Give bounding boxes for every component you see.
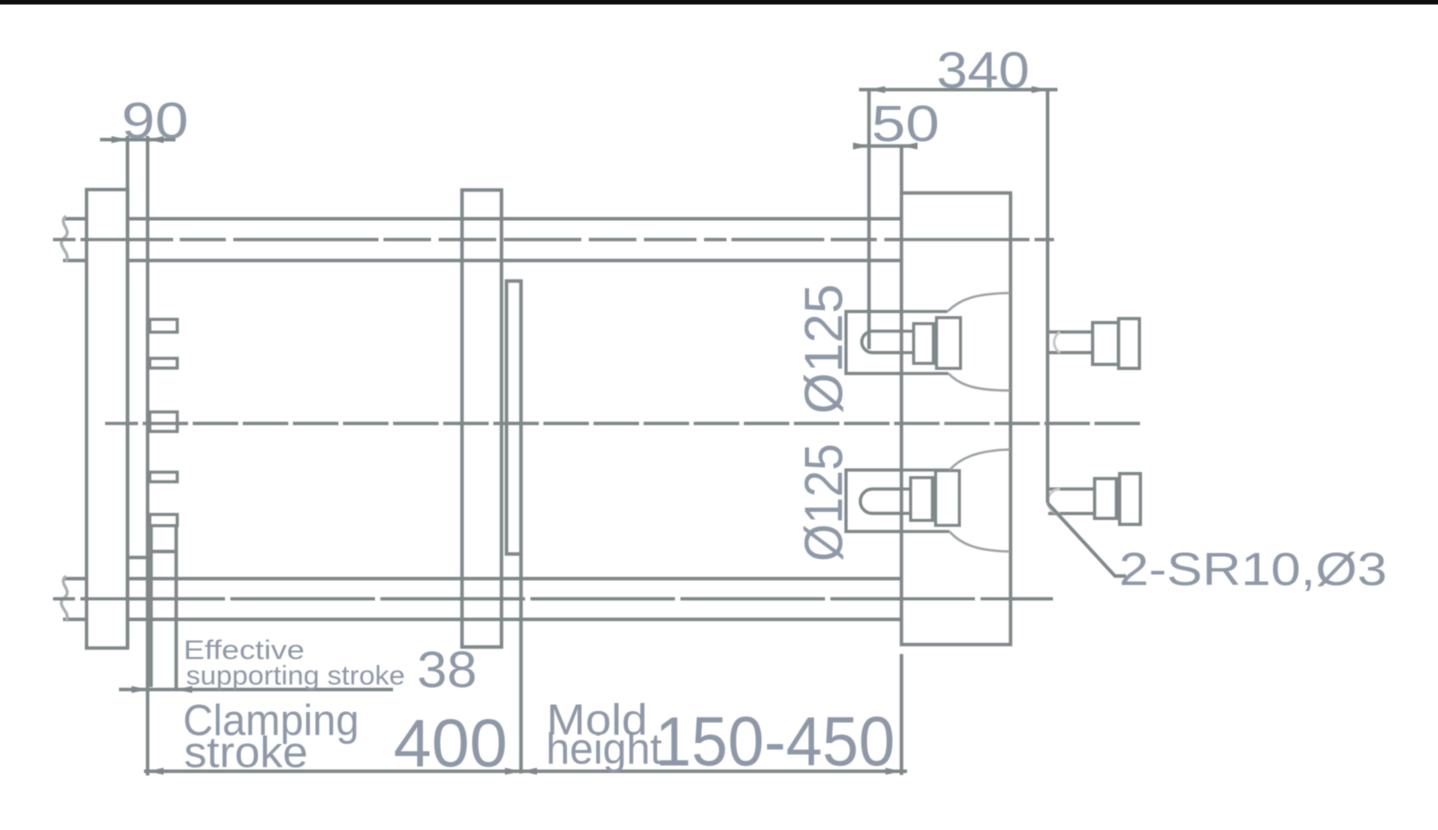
svg-text:400: 400 <box>394 706 508 782</box>
svg-text:90: 90 <box>122 92 189 149</box>
svg-text:50: 50 <box>872 95 940 152</box>
svg-text:stroke: stroke <box>184 728 308 777</box>
svg-text:Ø125: Ø125 <box>794 284 854 414</box>
svg-text:supporting stroke: supporting stroke <box>186 661 405 691</box>
svg-text:Ø125: Ø125 <box>794 444 854 562</box>
svg-text:2-SR10,Ø3: 2-SR10,Ø3 <box>1119 543 1387 595</box>
svg-text:150-450: 150-450 <box>655 703 895 781</box>
svg-text:38: 38 <box>417 641 477 698</box>
svg-text:340: 340 <box>937 42 1030 99</box>
svg-text:height: height <box>546 725 662 774</box>
